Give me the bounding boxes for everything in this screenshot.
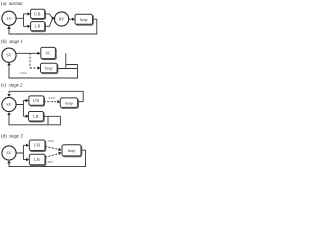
node SV (d)	[2, 146, 16, 160]
svg-text:LB: LB	[33, 114, 39, 119]
svg-text:SV: SV	[6, 53, 11, 58]
wire SV to SC	[16, 52, 38, 54]
arrow into SV bottom (c)	[7, 112, 10, 115]
node SV (c)	[2, 97, 16, 111]
dashed arrow SVC to heap (d)	[45, 146, 59, 150]
arrowhead into UB	[28, 12, 31, 15]
node SV (b)	[2, 48, 16, 62]
arrow into SV bottom (b)	[7, 62, 10, 65]
wire: feedback bottom loop panel d	[9, 150, 86, 166]
svg-text:(a) normal: (a) normal	[1, 2, 23, 7]
arrowhead into LB	[28, 25, 31, 28]
svg-text:UB: UB	[34, 143, 41, 148]
node RV	[55, 12, 69, 26]
arrow RV to heap	[68, 18, 72, 20]
node LV	[2, 11, 16, 25]
arrow into SV bottom (d)	[7, 160, 10, 163]
dashed wire cheat	[30, 53, 38, 68]
svg-text:SVC: SVC	[49, 96, 56, 100]
svg-text:(d) stage 3: (d) stage 3	[1, 135, 23, 140]
dashed arrow IVC to heap (d)	[45, 154, 59, 158]
arrow into LV bottom	[7, 26, 11, 29]
wire: feedback bottom loop panel b	[9, 53, 78, 78]
dashed arrow SVC to heap	[44, 101, 58, 103]
svg-text:heap: heap	[68, 149, 76, 153]
svg-text:SC: SC	[46, 51, 51, 56]
svg-text:heap: heap	[80, 18, 88, 22]
svg-text:LV: LV	[6, 16, 11, 21]
box SC	[42, 48, 57, 59]
arrowhead into RV	[52, 17, 55, 20]
wire: feedback bottom loop panel a	[9, 19, 97, 34]
box LB (a)	[31, 23, 45, 32]
wire: feedback top loop panel c	[9, 91, 83, 101]
svg-text:UB: UB	[33, 98, 40, 103]
svg-text:SV: SV	[6, 102, 11, 107]
box LB (d)	[30, 155, 46, 166]
arrow into SV top (c)	[7, 94, 10, 97]
wire SV fork (d)	[16, 145, 27, 159]
box heap (a)	[76, 15, 94, 25]
wire LV to fork	[16, 14, 28, 26]
svg-text:(b) stage 1: (b) stage 1	[1, 40, 23, 45]
box UB (a)	[31, 10, 45, 19]
box heap (c)	[61, 99, 78, 109]
svg-text:SV: SV	[6, 151, 11, 156]
svg-text:SVC: SVC	[48, 139, 55, 143]
wires UB/LB converge to RV	[45, 14, 53, 26]
svg-text:(c) stage 2: (c) stage 2	[1, 84, 23, 89]
svg-text:UB: UB	[34, 11, 41, 16]
svg-text:heap: heap	[65, 101, 73, 105]
box UB (c)	[30, 97, 45, 106]
box heap (d)	[63, 146, 82, 157]
wire SV fork (c)	[16, 101, 26, 117]
box heap (b)	[41, 64, 58, 74]
svg-text:cheat: cheat	[20, 71, 27, 75]
svg-text:heap: heap	[45, 67, 53, 71]
wire LB loop (c)	[9, 114, 60, 125]
svg-text:IVC: IVC	[48, 160, 55, 164]
svg-text:RV: RV	[59, 17, 64, 22]
svg-text:LB: LB	[35, 24, 41, 29]
svg-text:LB: LB	[34, 157, 40, 162]
box LB (c)	[29, 112, 44, 122]
box UB (d)	[30, 141, 46, 152]
